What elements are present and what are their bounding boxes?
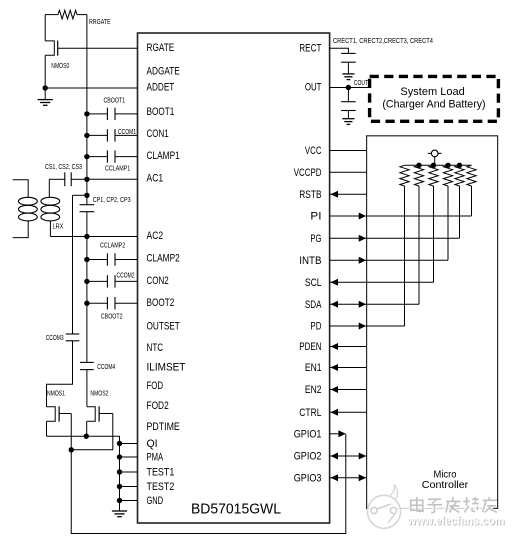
node TEST2 junction [117, 484, 122, 489]
capacitor CCOM4 label [97, 362, 115, 371]
capacitor CCOM2 label [117, 270, 135, 279]
svg-text:FOD: FOD [147, 380, 164, 392]
wire EN2 [330, 386, 367, 393]
wire bus (CP caps to CCOM4) [86, 212, 88, 363]
resistor pull-up R6 body [467, 165, 476, 186]
system load label line1 [400, 86, 464, 98]
svg-text:NMOS0: NMOS0 [51, 61, 69, 70]
pin label CON2 [147, 275, 169, 287]
wire AC1 pin [87, 178, 138, 180]
capacitor CCOM3 [66, 334, 80, 341]
pin label PI [310, 211, 321, 223]
wire PD with pull-up R [330, 186, 405, 330]
wire LRX bottom lead [49, 221, 51, 237]
svg-text:OUTSET: OUTSET [147, 321, 181, 333]
svg-text:PI: PI [310, 211, 321, 223]
svg-text:PMA: PMA [147, 451, 164, 463]
transistor Q NMOS2 label [90, 389, 108, 398]
pin label PMA [147, 451, 164, 463]
pin label PDEN [299, 341, 321, 353]
capacitor CS1,CS2,CS3 label [45, 162, 82, 171]
svg-text:FOD2: FOD2 [147, 400, 169, 412]
svg-text:CON1: CON1 [147, 128, 169, 140]
node COUT junction [346, 85, 351, 90]
svg-text:GPIO3: GPIO3 [294, 472, 322, 484]
svg-text:BOOT1: BOOT1 [147, 106, 175, 118]
pin label ADGATE [147, 65, 180, 77]
node QI junction [117, 441, 122, 446]
svg-text:CRECT1, CRECT2,CRECT3, CRECT4: CRECT1, CRECT2,CRECT3, CRECT4 [333, 36, 433, 45]
svg-text:GPIO1: GPIO1 [294, 428, 322, 440]
resistor pull-up R2 body [414, 165, 423, 186]
pin label AC2 [147, 230, 164, 242]
svg-text:CLAMP1: CLAMP1 [147, 150, 180, 162]
wire PG with pull-up R [330, 186, 460, 242]
wire TX coil bottom lead [13, 221, 29, 238]
pin label ILIMSET [147, 362, 186, 374]
svg-text:ADGATE: ADGATE [147, 65, 180, 77]
svg-text:RRGATE: RRGATE [89, 17, 111, 26]
wire bus (RRGATE to CP caps) [86, 15, 88, 205]
svg-text:RSTB: RSTB [299, 189, 321, 201]
svg-text:SCL: SCL [305, 277, 322, 289]
wire EN1 [330, 364, 367, 371]
pin label GPIO2 [294, 451, 322, 463]
micro controller box [367, 136, 498, 509]
capacitor CRECT1-4 label [333, 36, 433, 45]
pin label SCL [305, 277, 322, 289]
node rail junction x=433.5 [431, 163, 436, 168]
svg-text:PDTIME: PDTIME [147, 421, 180, 433]
node CP branch junction [84, 193, 89, 198]
pin label OUTSET [147, 321, 181, 333]
node PMA junction [117, 454, 122, 459]
svg-text:CCOM3: CCOM3 [46, 333, 64, 342]
ground (GND pin) [112, 501, 127, 517]
transistor Q NMOS0 channel path [45, 41, 54, 55]
transistor Q NMOS0 gate bar [57, 41, 59, 56]
svg-text:RECT: RECT [299, 43, 321, 55]
pin label CLAMP2 [147, 253, 180, 265]
wire NMOS2 gate lead [99, 413, 113, 415]
wire NMOS2 gate from bus [86, 406, 88, 408]
wire QI pin stub [120, 443, 138, 445]
node bus-CCLAMP1 [84, 154, 89, 159]
ground (COUT) [342, 111, 354, 125]
svg-text:CS1, CS2, CS3: CS1, CS2, CS3 [45, 162, 82, 171]
node bus-CCLAMP2 [84, 257, 89, 262]
capacitor CCOM4 [80, 362, 94, 369]
wire branch stub [73, 194, 87, 196]
capacitor COUT label [354, 78, 369, 87]
wire NMOS2 source down [86, 421, 88, 436]
svg-text:VCCPD: VCCPD [294, 167, 322, 179]
pin label ADDET [147, 81, 175, 93]
system load label line2 [382, 99, 485, 111]
wire VCC [330, 150, 367, 152]
transistor NMOS0 label [51, 61, 69, 70]
wire NMOS1 gate lead [59, 413, 71, 415]
svg-text:PD: PD [310, 321, 321, 333]
pin label RECT [299, 43, 321, 55]
watermark url text [407, 514, 506, 529]
svg-text:ADDET: ADDET [147, 81, 175, 93]
capacitor CCLAMP1 label [105, 163, 130, 172]
wire TX coil top lead [13, 180, 29, 198]
pin label RGATE [147, 42, 175, 54]
IC U1 part number label BD57015GWL [191, 502, 281, 518]
pin label TEST2 [147, 481, 175, 493]
pin label VCC [305, 145, 322, 157]
pin label FOD [147, 380, 164, 392]
pin label CLAMP1 [147, 150, 180, 162]
svg-text:EN2: EN2 [305, 384, 322, 396]
svg-text:COUT: COUT [354, 78, 369, 87]
svg-text:www.elecfans.com: www.elecfans.com [407, 514, 505, 528]
svg-text:EN1: EN1 [305, 362, 322, 374]
wire NMOS0 source down [44, 55, 46, 88]
transistor Q NMOS1 channel path [47, 407, 56, 422]
IC U1 BD57015GWL body [138, 33, 330, 523]
pin label RSTB [299, 189, 321, 201]
resistor pull-up R3 body [429, 165, 438, 186]
wire GPIO3 [330, 474, 367, 481]
node bus-CCOM2 [84, 279, 89, 284]
wire TEST1 pin stub [120, 471, 138, 473]
wire CTRL [330, 409, 367, 416]
capacitor CBOOT2 label [101, 312, 123, 321]
svg-text:GND: GND [147, 495, 164, 507]
wire GND pin stub [120, 500, 138, 502]
capacitor CS1,CS2,CS3 [65, 172, 71, 186]
pull-up rail wire [405, 164, 472, 166]
pin label PDTIME [147, 421, 180, 433]
svg-text:CCOM4: CCOM4 [97, 362, 115, 371]
pin label INTB [299, 255, 321, 267]
svg-text:BOOT2: BOOT2 [147, 297, 175, 309]
pin label CON1 [147, 128, 169, 140]
svg-text:TEST2: TEST2 [147, 481, 175, 493]
capacitor COUT [341, 88, 356, 111]
pin label SDA [305, 299, 322, 311]
svg-text:ILIMSET: ILIMSET [147, 362, 186, 374]
wire CS caps to bus [71, 178, 87, 180]
capacitor CCOM2 [87, 275, 138, 287]
wire SDA with pull-up R [330, 186, 419, 308]
pin label PG [310, 233, 321, 245]
svg-text:BD57015GWL: BD57015GWL [191, 502, 281, 518]
node bus-CBOOT2 [84, 301, 89, 306]
svg-text:CCOM1: CCOM1 [118, 127, 136, 136]
svg-text:VCC: VCC [305, 145, 322, 157]
capacitor CRECT1,CRECT2,CRECT3,CRECT4 [341, 53, 356, 62]
node AC1 junction [84, 177, 89, 182]
wire SCL with pull-up R [330, 186, 434, 286]
capacitor CBOOT2 [87, 297, 138, 309]
transistor Q NMOS2 gate bar [98, 406, 100, 421]
capacitor CCLAMP2 label [100, 241, 125, 250]
pin label GND [147, 495, 164, 507]
ground (NMOS0 source) [38, 88, 53, 105]
svg-text:PG: PG [310, 233, 321, 245]
wire ADDET pin [45, 87, 137, 89]
inductor LRX label [53, 222, 64, 231]
node rail junction x=459.5 [457, 163, 462, 168]
pin label FOD2 [147, 400, 169, 412]
node NMOS0 source / ADDET junction [43, 85, 48, 90]
resistor pull-up R1 body [400, 165, 409, 186]
wire INTB with pull-up R [330, 186, 448, 264]
resistor pull-up R4 body [443, 165, 452, 186]
svg-text:CBOOT1: CBOOT1 [104, 95, 126, 104]
wire NMOS1 gate drop [70, 414, 72, 450]
pin label PD [310, 321, 321, 333]
pin label CTRL [299, 407, 321, 419]
watermark logo circle [368, 484, 493, 528]
pin label EN1 [305, 362, 322, 374]
micro controller label line1 [434, 469, 457, 480]
system load box (dashed) [370, 76, 499, 121]
pin label GPIO1 [294, 428, 322, 440]
capacitor CCLAMP1 [87, 150, 138, 162]
node TEST1 junction [117, 469, 122, 474]
micro controller label line2 [422, 480, 469, 491]
svg-text:AC1: AC1 [147, 173, 164, 185]
wire TEST2 pin stub [120, 486, 138, 488]
inductor TX coil (left winding) [19, 197, 38, 221]
node bus-CCOM1 [84, 133, 89, 138]
pin label BOOT2 [147, 297, 175, 309]
node rail junction x=448 [445, 163, 450, 168]
wire GPIO1 arrow [330, 430, 346, 437]
wire NMOS0 gate to RGATE pin [58, 47, 138, 49]
wire GPIO2 [330, 453, 367, 460]
svg-text:SDA: SDA [305, 299, 322, 311]
transistor Q NMOS2 channel path [87, 407, 96, 422]
capacitor CBOOT1 label [104, 95, 126, 104]
svg-text:GPIO2: GPIO2 [294, 451, 322, 463]
power supply terminal symbol [428, 150, 442, 165]
svg-text:(Charger And Battery): (Charger And Battery) [382, 99, 485, 111]
wire branch B down [72, 195, 74, 334]
transistor Q NMOS1 gate bar [58, 406, 60, 421]
ground (CRECT) [342, 62, 354, 79]
pin label OUT [305, 82, 322, 94]
node NMOS2 source junction [84, 434, 89, 439]
wire OUT pin [330, 87, 370, 89]
svg-text:AC2: AC2 [147, 230, 164, 242]
wire PI with pull-up R [330, 186, 472, 220]
watermark chinese text [411, 497, 497, 512]
capacitor CCLAMP2 [87, 253, 138, 265]
svg-text:QI: QI [147, 438, 158, 450]
pin label VCCPD [294, 167, 322, 179]
wire RECT pin [330, 48, 349, 53]
node bus-CBOOT1 [84, 111, 89, 116]
svg-text:LRX: LRX [53, 222, 64, 231]
svg-text:Controller: Controller [422, 480, 469, 491]
node GND junction [117, 498, 122, 503]
wire RSTB [330, 191, 367, 198]
svg-text:CTRL: CTRL [299, 407, 321, 419]
capacitor CCOM3 label [46, 333, 64, 342]
svg-text:INTB: INTB [299, 255, 321, 267]
svg-text:CCLAMP2: CCLAMP2 [100, 241, 125, 250]
capacitor CP1,CP2,CP3 label [93, 195, 131, 204]
node rail junction x=419 [416, 163, 421, 168]
resistor RRGATE (lead left) [45, 14, 58, 16]
svg-text:TEST1: TEST1 [147, 466, 175, 478]
svg-text:NTC: NTC [147, 342, 164, 354]
capacitor CCOM1 [87, 129, 138, 141]
wire bus (CCOM4 to NMOS2 gate) [86, 370, 88, 407]
svg-text:CCOM2: CCOM2 [117, 270, 135, 279]
wire NMOS1 source down [46, 421, 48, 436]
inductor LRX (right winding) [41, 197, 60, 221]
transistor Q NMOS1 label [47, 389, 65, 398]
svg-text:RGATE: RGATE [147, 42, 175, 54]
capacitor CBOOT1 [87, 108, 138, 120]
svg-text:CP1, CP2, CP3: CP1, CP2, CP3 [93, 195, 131, 204]
wire NMOS0 drain (from resistor) [44, 15, 46, 41]
wire coil to CS caps [49, 178, 65, 180]
pin label BOOT1 [147, 106, 175, 118]
svg-text:CON2: CON2 [147, 275, 169, 287]
wire AC2 pin [50, 236, 137, 238]
pin label QI [147, 438, 158, 450]
svg-text:PDEN: PDEN [299, 341, 321, 353]
svg-text:System Load: System Load [400, 86, 464, 98]
svg-text:CLAMP2: CLAMP2 [147, 253, 180, 265]
svg-text:CCLAMP1: CCLAMP1 [105, 163, 130, 172]
resistor RRGATE (lead right) [77, 14, 87, 16]
svg-text:NMOS1: NMOS1 [47, 389, 65, 398]
wire PDEN [330, 343, 367, 350]
pin label AC1 [147, 173, 164, 185]
resistor RRGATE value label [89, 17, 111, 26]
node NMOS gates junction [69, 447, 74, 452]
svg-text:OUT: OUT [305, 82, 322, 94]
wire GPIO1 net (bottom run) [71, 434, 346, 534]
svg-text:Micro: Micro [434, 469, 457, 480]
wire NMOS2 gate drop [71, 414, 113, 450]
wire LRX top lead [48, 179, 50, 197]
wire NMOS sources to QI bus [47, 436, 120, 500]
capacitor CCOM1 label [118, 127, 136, 136]
resistor RRGATE body [58, 10, 77, 19]
svg-text:NMOS2: NMOS2 [90, 389, 108, 398]
svg-text:CBOOT2: CBOOT2 [101, 312, 123, 321]
node AC2 junction [84, 234, 89, 239]
capacitor CP1,CP2,CP3 [80, 205, 95, 212]
pin label EN2 [305, 384, 322, 396]
wire PMA pin stub [120, 456, 138, 458]
wire CCOM3 to NMOS1 gate [47, 341, 73, 407]
wire VCCPD [330, 171, 367, 173]
resistor pull-up R5 body [455, 165, 464, 186]
pin label TEST1 [147, 466, 175, 478]
pin label GPIO3 [294, 472, 322, 484]
pin label NTC [147, 342, 164, 354]
